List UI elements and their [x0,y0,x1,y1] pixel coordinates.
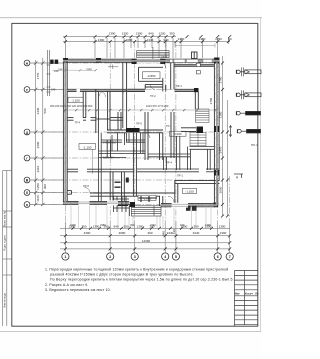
svg-text:300 240 910 1240 120 1150: 300 240 910 1240 120 1150 470 900 [50,104,93,108]
central vertical wall (axis 3 upper) [123,62,127,128]
svg-text:390: 390 [123,224,128,228]
svg-text:2340: 2340 [167,231,174,235]
svg-text:940: 940 [180,223,185,227]
pilasters on top wall [50,58,219,65]
svg-text:1770: 1770 [36,72,40,79]
svg-text:ПР-5: ПР-5 [136,122,142,126]
interior dim line [63,109,215,111]
tambour walls top right [139,62,175,89]
svg-text:б: б [26,191,28,195]
right exterior wall [214,58,219,207]
room wall at axis в (bottom-right room) [175,181,220,204]
top exterior wall [63,59,220,62]
svg-text:ПР-3: ПР-3 [161,55,167,59]
svg-text:Подп. и дата: Подп. и дата [3,235,7,251]
left vertical dim lines [30,58,63,205]
legend item 2 [236,90,261,99]
right stair flight [196,109,210,123]
title block (bottom right, cropped) [235,271,259,327]
svg-text:-0.850: -0.850 [147,74,156,78]
notes text [45,268,234,293]
svg-text:390: 390 [169,32,174,36]
right dim ticks [221,62,229,218]
svg-text:Инв.№ подл.: Инв.№ подл. [3,292,7,308]
left margin rotated texts [3,211,7,308]
paper edge top [0,17,262,19]
svg-text:590: 590 [43,108,47,113]
svg-text:240: 240 [58,68,63,72]
bottom dim texts [69,224,227,243]
svg-text:1. Перегородки кирпичные толщи: 1. Перегородки кирпичные толщиной 120мм … [45,268,228,272]
svg-text:14360: 14360 [142,239,151,243]
svg-text:940: 940 [113,224,118,228]
legend item 3 (solid) [236,111,260,115]
svg-text:2980: 2980 [100,223,106,227]
dimension ticks top lines [64,35,231,43]
svg-text:-1.100: -1.100 [185,189,194,193]
door gap top wall [137,59,161,63]
dimension ticks bottom lines [64,227,231,251]
wall hatch bands [63,61,220,205]
svg-text:2080: 2080 [126,38,133,42]
hatch diag strokes [63,59,219,208]
svg-text:ПР-4: ПР-4 [166,161,172,165]
svg-text:120 1480: 120 1480 [103,156,114,160]
interior dim text rows [50,55,211,227]
svg-text:940: 940 [163,38,168,42]
svg-text:ПР-1: ПР-1 [176,84,182,88]
svg-text:0.000: 0.000 [174,132,182,136]
inner wall face top-right [174,63,214,65]
svg-text:4390: 4390 [84,231,91,235]
svg-text:4390: 4390 [70,223,76,227]
window leaders [71,206,211,229]
axis circles bottom [62,253,233,260]
svg-text:-1.100: -1.100 [83,145,92,149]
svg-text:970 90 910: 970 90 910 [103,141,117,145]
svg-text:3080: 3080 [119,231,126,235]
svg-text:1390: 1390 [178,37,185,41]
door line [92,150,94,174]
wc fixtures [115,178,129,188]
paper edge bottom [0,331,261,333]
svg-text:-1.100: -1.100 [71,98,80,102]
wall at axis д cluster [107,128,196,133]
svg-text:3. Ведомость перемычек см.лист: 3. Ведомость перемычек см.лист 10. [45,288,111,292]
svg-text:ПР-1: ПР-1 [251,143,258,147]
door swing arcs [85,62,175,202]
svg-text:2980: 2980 [86,68,92,72]
canopy line [175,45,215,47]
svg-text:3: 3 [134,255,136,259]
bottom exterior wall left part [63,201,129,204]
drawing frame [12,23,258,326]
left dim ticks [34,61,45,206]
svg-text:ТР-4: ТР-4 [75,121,81,125]
elevation box mid [170,131,187,136]
inner dim ticks row y110 [64,109,216,111]
svg-text:1390: 1390 [205,223,211,227]
svg-text:1200: 1200 [159,32,166,36]
svg-text:4: 4 [164,255,166,259]
svg-text:1160: 1160 [36,195,40,202]
svg-text:240: 240 [54,69,59,73]
porch left lines [47,50,51,96]
window gaps bottom left wall [79,200,119,205]
svg-text:ПР-1: ПР-1 [177,174,183,178]
left rotated dim texts [36,72,47,201]
svg-text:1390: 1390 [98,38,105,42]
svg-text:3440: 3440 [193,231,200,235]
small dim line top-left [52,69,96,71]
svg-text:7: 7 [229,255,231,259]
interior vertical walls middle [108,91,199,196]
svg-text:3440: 3440 [36,107,40,114]
svg-text:1390: 1390 [219,224,226,228]
vent shaft [192,52,198,59]
interior wall at axis е [67,89,194,91]
right vertical dim line [223,56,228,216]
wall y118 [67,91,123,157]
entrance porch stair top [137,47,170,59]
svg-text:1340: 1340 [147,38,154,42]
bottom wall lower-right block [129,196,217,216]
elevation label boxes [68,72,197,201]
svg-text:2340: 2340 [150,223,156,227]
svg-text:Изм: Изм [235,293,240,296]
entry steps bottom right [186,206,197,211]
section marker A [234,174,243,178]
legend item 1 [236,67,261,76]
window gaps bottom right wall [172,203,189,208]
svg-text:2210: 2210 [36,165,40,172]
svg-text:1610 970 1770 200: 1610 970 1770 200 [146,104,169,108]
svg-text:1390: 1390 [93,224,100,228]
tambour lower wall L [145,78,166,91]
svg-text:Кол.уч: Кол.уч [245,293,253,296]
svg-text:2. Разрез А-А см.лист 9.: 2. Разрез А-А см.лист 9. [45,283,89,287]
svg-text:240: 240 [51,88,56,92]
svg-text:е: е [26,88,28,92]
title block header texts [235,293,259,296]
svg-text:ж: ж [25,61,29,65]
WC cluster dark walls [118,196,158,206]
svg-text:2000: 2000 [219,186,223,193]
svg-text:ТР-2: ТР-2 [150,94,156,98]
svg-text:940: 940 [148,32,153,36]
bottom dim lines [60,222,230,253]
svg-text:1250: 1250 [36,183,40,190]
corridor wall y176 [67,169,133,201]
svg-text:1: 1 [64,255,66,259]
stair flight 2 [190,128,206,146]
svg-text:2: 2 [109,255,111,259]
svg-text:Ли: Ли [255,293,259,296]
svg-text:390: 390 [193,224,198,228]
svg-text:ТР-1: ТР-1 [166,124,172,128]
paper edge right [260,18,262,332]
wall niches [196,63,200,74]
top dim lines [63,37,230,58]
svg-text:Взам. инв.№: Взам. инв.№ [3,211,7,227]
svg-text:1700: 1700 [209,97,213,104]
svg-text:390: 390 [130,223,135,227]
svg-text:По Верху перегородки крепить к: По Верху перегородки крепить к плитам пе… [50,278,234,282]
left exterior wall [63,58,67,205]
wall at axis б [90,193,175,196]
interior vertical wall x96 [96,89,99,133]
svg-text:1390: 1390 [109,32,116,36]
svg-text:ПР-6: ПР-6 [83,184,89,188]
svg-text:1390: 1390 [220,231,227,235]
left margin stamp table [3,171,12,327]
svg-text:900: 900 [43,184,47,189]
small rooms cluster walls [98,133,219,212]
legend item 4 (solid with vertical tick) [229,126,260,137]
svg-text:5: 5 [175,255,177,259]
lintel label boxes on wall [170,59,212,62]
stair flight bottom (hatched steps) [132,206,162,216]
top dim texts [98,32,232,42]
sill ticks under top wall opening [108,66,118,68]
svg-text:2600: 2600 [36,141,40,148]
svg-text:разовой 40х2мм t=150мм с дВух: разовой 40х2мм t=150мм с дВух сторон пер… [50,273,194,277]
svg-text:6: 6 [217,255,219,259]
svg-text:390: 390 [147,231,152,235]
svg-text:а: а [26,203,28,207]
